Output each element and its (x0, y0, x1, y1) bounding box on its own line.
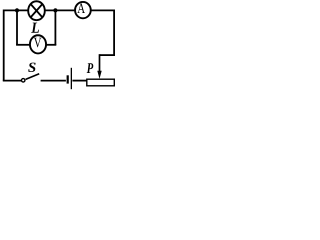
voltmeter V1 (30, 35, 46, 53)
battery B1: short thick plate (negative) (67, 75, 69, 83)
label L (lamp designator) (31, 23, 39, 33)
node: junction dot left (voltmeter tap) (15, 8, 19, 12)
rheostat P (resistor body) (87, 79, 115, 86)
ammeter A1 (75, 2, 91, 18)
wire: horizontal jog to rheostat slider (100, 54, 116, 56)
slider arrow head (97, 71, 101, 79)
wire: bottom segment battery to rheostat (72, 80, 87, 82)
lamp L (28, 1, 45, 20)
wire: voltmeter branch left horizontal (16, 44, 30, 46)
switch S (21, 74, 39, 82)
wire: voltmeter branch right horizontal (46, 44, 56, 46)
battery B1: long thin plate (positive) (71, 68, 72, 89)
wire: bottom segment switch to battery (41, 80, 66, 82)
wire: voltmeter branch left vertical (16, 10, 18, 44)
wire: voltmeter branch right vertical (54, 10, 56, 44)
wire: top side of outer loop (4, 9, 114, 11)
label S (switch designator) (28, 63, 35, 72)
wire: left side of outer loop (3, 10, 5, 81)
wire: bottom-left segment (corner to switch) (3, 80, 22, 82)
node: junction dot right (voltmeter tap) (53, 8, 57, 12)
wire: slider shaft (99, 54, 101, 72)
wire: right side of outer loop (113, 10, 115, 56)
label P (rheostat designator) (87, 63, 94, 73)
